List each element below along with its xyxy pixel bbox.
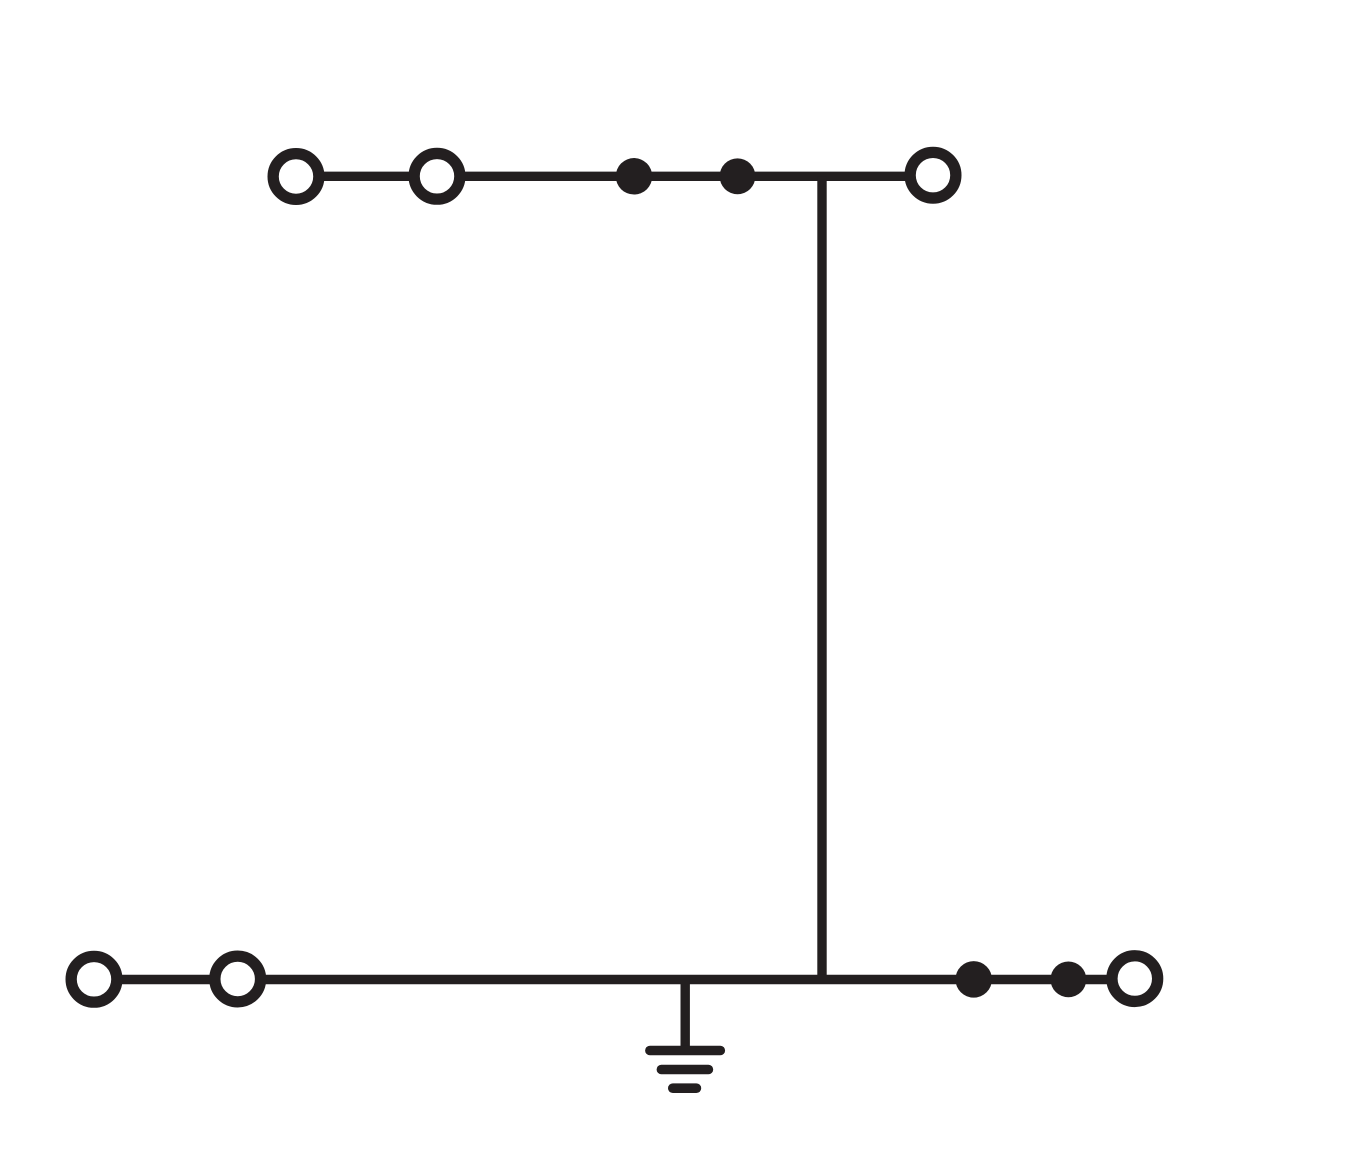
terminal clamping point 1 (top level, leftmost) xyxy=(273,154,319,200)
ground (earth symbol, three bars) xyxy=(650,1051,720,1089)
wire: vertical link between upper bus and lower bus xyxy=(817,176,826,979)
node: jumper contact A (top bus) xyxy=(616,158,653,195)
wire: bottom bus (lower level conductor rail) xyxy=(94,975,1135,984)
wire: top bus (upper level conductor rail) xyxy=(296,172,933,181)
node: jumper contact C (bottom bus) xyxy=(955,961,992,998)
terminal clamping point 6 (bottom level, rightmost) xyxy=(1112,956,1158,1002)
node: jumper contact B (top bus) xyxy=(720,158,756,194)
terminal clamping point 4 (bottom level, leftmost) xyxy=(71,956,117,1002)
wire: ground stub from bottom bus xyxy=(681,980,690,1051)
terminal clamping point 3 (top level, rightmost) xyxy=(910,152,956,198)
terminal clamping point 2 (top level) xyxy=(414,153,460,199)
terminal clamping point 5 (bottom level) xyxy=(215,956,261,1002)
node: jumper contact D (bottom bus) xyxy=(1051,962,1087,998)
